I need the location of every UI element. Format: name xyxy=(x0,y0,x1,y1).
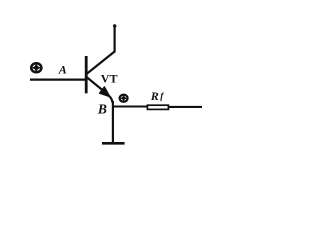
transistor VT emitter diagonal with arrow xyxy=(87,77,113,103)
wire: input A to base xyxy=(30,78,87,80)
svg-text:B: B xyxy=(97,102,107,117)
node A terminal symbol (circled plus) xyxy=(31,63,41,72)
wire: resistor to right xyxy=(169,106,203,108)
label Rf xyxy=(150,89,165,103)
svg-text:R: R xyxy=(150,89,159,103)
ground bar xyxy=(102,142,125,145)
wire: node B to resistor xyxy=(112,105,148,107)
wire: node B down to ground xyxy=(112,101,114,143)
resistor Rf body xyxy=(147,105,168,109)
node B terminal symbol (circled plus) xyxy=(120,95,128,102)
svg-text:VT: VT xyxy=(101,72,118,86)
svg-text:A: A xyxy=(58,63,67,77)
transistor VT base bar xyxy=(85,56,88,93)
wire: collector vertical up xyxy=(113,25,115,53)
svg-text:f: f xyxy=(160,91,164,101)
transistor VT collector diagonal xyxy=(87,52,115,75)
